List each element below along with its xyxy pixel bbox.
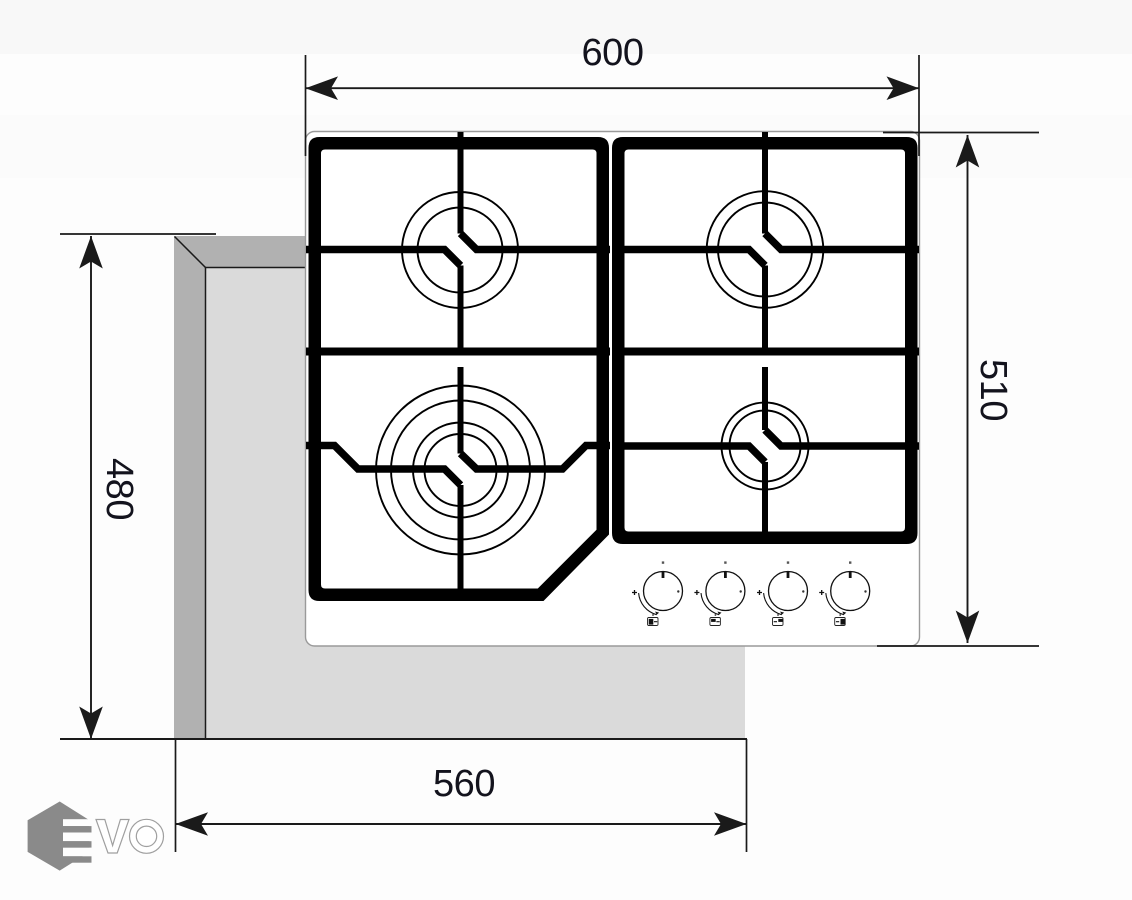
countertop inner edge lines [206, 268, 311, 740]
dimension 560 line [176, 823, 747, 825]
dimension 600 extension line right [918, 55, 920, 156]
dimension 560 extension line left [175, 739, 177, 852]
control knob 1 [632, 561, 683, 625]
left grid center line stub [458, 132, 464, 151]
dimension 480 line [90, 236, 92, 739]
left pan support frame [309, 137, 610, 601]
burner 4 rings [722, 403, 809, 490]
burner 3 rings [376, 386, 545, 555]
left grid vertical segments [458, 266, 464, 596]
logo E notches [63, 819, 92, 826]
dimension 560 arrow left [176, 812, 209, 836]
left grid notched wok crossbar with jog (burner 3) [306, 446, 461, 486]
countertop cutout panel [60, 236, 747, 739]
logo letter O [130, 819, 164, 853]
right grid vertical segments [762, 150, 768, 532]
right grid top crossbar with jog (burner 2) [613, 250, 765, 266]
dimension 560 extension line right [746, 739, 748, 852]
right pan support frame [612, 137, 918, 544]
burner 1 rings [402, 192, 518, 308]
countertop light surface [205, 267, 745, 739]
logo E bars [60, 826, 92, 832]
dimension 600 extension line left [305, 55, 307, 156]
svg-text:560: 560 [433, 763, 495, 805]
logo hexagon [28, 802, 90, 871]
dimension 480 arrow top [79, 236, 103, 269]
hob glass panel [306, 132, 920, 647]
dimension 510 extension line bottom [877, 645, 1039, 647]
dimension 600 line [306, 87, 920, 89]
left grid top crossbar with jog (burner 1) [306, 250, 461, 266]
svg-text:600: 600 [582, 32, 644, 74]
dimension 480 arrow bottom [79, 707, 103, 740]
countertop bottom edge line [60, 738, 747, 740]
control knob 2 [694, 561, 745, 625]
svg-text:510: 510 [972, 359, 1014, 421]
svg-text:480: 480 [98, 458, 140, 520]
logo letter V [96, 820, 129, 854]
dimension 510 arrow bottom [956, 611, 980, 644]
dimension 510 extension line top [883, 132, 1039, 134]
right grid center line stub [762, 132, 768, 151]
countertop dark edge band [174, 236, 745, 739]
right grid lower crossbar with jog (burner 4) [613, 446, 765, 462]
control knob 4 [819, 561, 870, 625]
burner 2 rings [707, 191, 824, 308]
control knob 3 [757, 561, 808, 625]
dimension 560 arrow right [714, 812, 747, 836]
dimension 600 arrow right [887, 76, 920, 100]
dimension 510 line [967, 135, 969, 643]
left grid middle crossbar [306, 348, 610, 356]
dimension 480 extension line top [60, 233, 216, 235]
right grid middle crossbar [613, 348, 919, 356]
dimension 510 arrow top [956, 135, 980, 168]
countertop miter line [175, 237, 206, 268]
dimension 600 arrow left [306, 76, 339, 100]
